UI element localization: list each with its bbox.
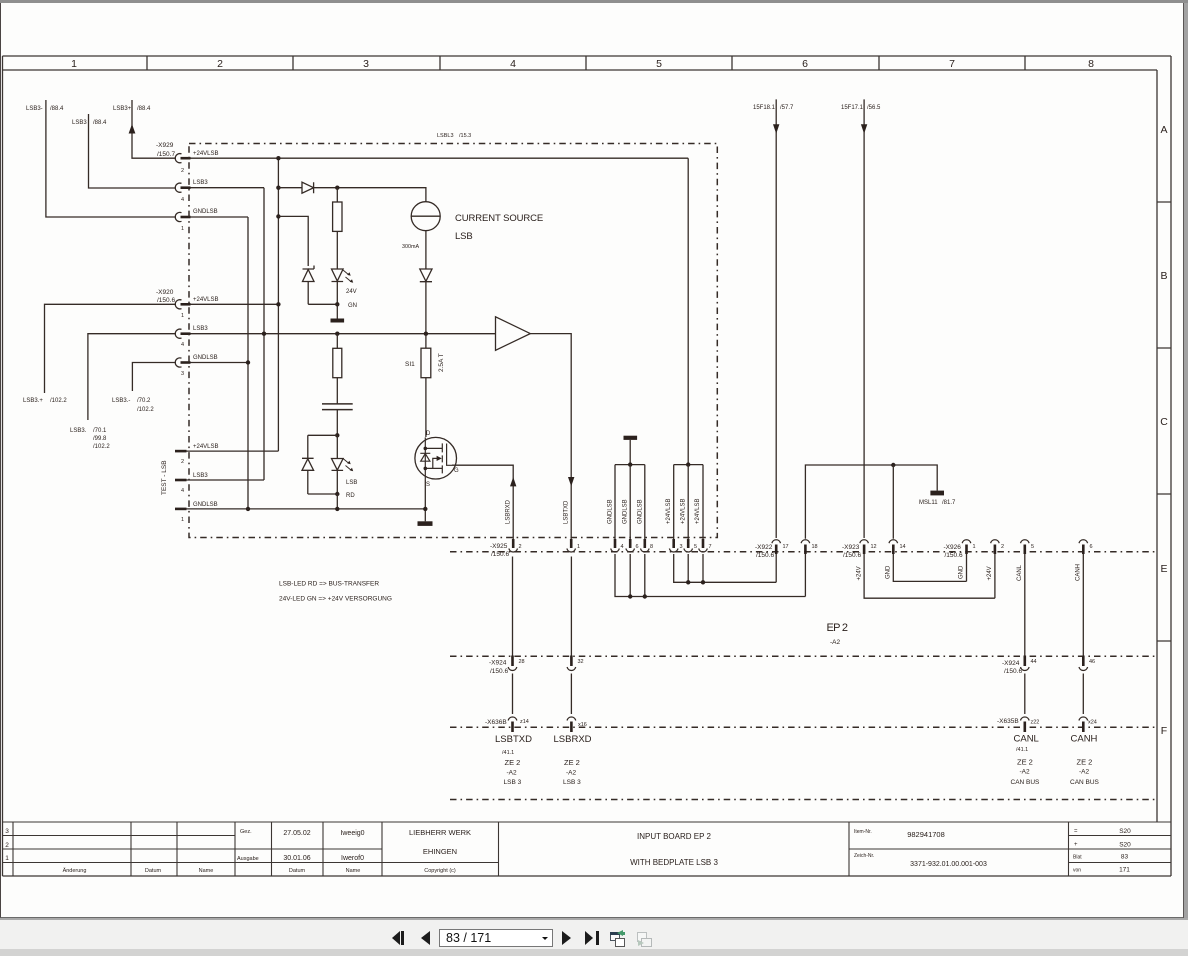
connector X925 24V pin 5 number (694, 544, 697, 550)
wire LED pair bottom link (308, 493, 338, 495)
svg-text:z22: z22 (1031, 720, 1040, 726)
diode V3 reverse of LED pair (302, 458, 314, 494)
svg-text:5: 5 (656, 58, 662, 70)
svg-text:18: 18 (812, 544, 818, 550)
svg-text:1: 1 (973, 544, 976, 550)
net label LSB3 at X920 (193, 326, 208, 332)
destination label CANH CAN BUS (1070, 779, 1100, 786)
svg-text:4: 4 (510, 58, 516, 70)
connector X925 pin LSBTXD number (519, 544, 522, 550)
column number 1 (71, 58, 77, 70)
svg-text:GNDLSB: GNDLSB (193, 355, 218, 361)
test pin 1 number (181, 517, 184, 523)
destination label LSBTXD sheet ref (502, 750, 514, 756)
connector X636B pin z14 number (520, 719, 529, 725)
arrow LSBTXD down (568, 477, 574, 486)
wire GNDLSB drop 3 (644, 465, 646, 539)
connector X922 pin 17 number (783, 544, 789, 550)
svg-text:LSB-LED RD => BUS-TRANSFER: LSB-LED RD => BUS-TRANSFER (279, 581, 379, 588)
note LED legend text (279, 581, 392, 603)
column number 7 (949, 58, 955, 70)
connector X920 pin 4 number (181, 342, 184, 348)
column number 5 (656, 58, 662, 70)
connector X920 pin 1 socket +24VLSB (175, 300, 190, 309)
svg-text:Blat: Blat (1073, 855, 1082, 861)
svg-text:/70.2: /70.2 (137, 398, 151, 404)
node LSB3 tail label (70, 428, 110, 450)
connector X925 24V pin 7 number (709, 544, 712, 550)
wire buffer output to LSBTXD column (530, 334, 571, 539)
connector X926 pin 6 number (1090, 544, 1093, 550)
net label +24V at X926 rotated (987, 566, 993, 580)
wire +24VLSB row X920 (191, 303, 279, 305)
svg-text:15F17.1: 15F17.1 (841, 105, 864, 111)
destination label CANH ZE 2 (1077, 758, 1093, 767)
svg-text:z14: z14 (520, 719, 529, 725)
junction +24V bus zener branch (276, 214, 280, 218)
connector X926 pin 1 number (973, 544, 976, 550)
destination label LSBRXD -A2 (566, 770, 577, 777)
svg-text:LSB3.-: LSB3.- (112, 398, 130, 404)
svg-text:CANH: CANH (1076, 564, 1082, 581)
svg-text:CURRENT SOURCE: CURRENT SOURCE (455, 213, 543, 224)
svg-text:D: D (426, 431, 431, 437)
connector X926 pin 2 number (1001, 544, 1004, 550)
svg-text:LSB3: LSB3 (193, 180, 208, 186)
net label LSBTXD rotated (564, 500, 570, 524)
connector X925 pin LSBRXD number (577, 544, 580, 550)
destination label LSBTXD -A2 (507, 770, 518, 777)
svg-text:GNDLSB: GNDLSB (608, 499, 614, 524)
wire LSB3 row X929 (191, 187, 265, 189)
junction +24V bus diode branch (276, 186, 280, 190)
svg-text:14: 14 (900, 544, 906, 550)
ground symbol below Q1 (418, 521, 433, 526)
svg-text:EP 2: EP 2 (827, 622, 848, 634)
svg-text:/150.7: /150.7 (157, 151, 175, 158)
svg-text:E: E (1160, 563, 1167, 575)
svg-text:-A2: -A2 (1020, 769, 1031, 776)
junction LSB3 bus at X920 row (262, 332, 266, 336)
junction LSB3 row at fuse (424, 332, 428, 336)
wire CANH X924 to X635B (1082, 674, 1084, 715)
destination label CANL (1014, 734, 1039, 745)
svg-text:-A2: -A2 (1079, 769, 1090, 776)
destination label CANL sheet ref (1016, 747, 1028, 753)
svg-text:MSL11: MSL11 (919, 500, 938, 506)
svg-text:-A2: -A2 (830, 639, 841, 646)
destination label LSBRXD (554, 734, 592, 745)
wire 24V drops to rail (674, 554, 777, 582)
svg-text:TEST - LSB: TEST - LSB (161, 460, 168, 495)
svg-text:+24VLSB: +24VLSB (193, 151, 219, 157)
svg-text:-A2: -A2 (566, 770, 577, 777)
nav first-page button (392, 931, 400, 945)
svg-text:171: 171 (1119, 867, 1130, 874)
connector X925 24V pin 3 socket (669, 539, 678, 552)
wire current source to diode V2 (425, 231, 427, 269)
svg-text:A: A (1160, 124, 1167, 136)
svg-text:/41.1: /41.1 (502, 750, 514, 756)
svg-text:+24VLSB: +24VLSB (193, 444, 219, 450)
connector X925 pin LSBRXD socket (567, 539, 576, 552)
junction Q1 source internal (424, 467, 428, 471)
svg-text:/41.1: /41.1 (1016, 747, 1028, 753)
svg-text:6: 6 (636, 544, 639, 550)
svg-text:982941708: 982941708 (907, 830, 945, 839)
test point TEST-LSB rotated label (161, 460, 168, 495)
svg-text:1: 1 (181, 517, 184, 523)
svg-text:/57.7: /57.7 (780, 105, 794, 111)
svg-text:SI1: SI1 (405, 361, 415, 368)
svg-text:15F18.1: 15F18.1 (753, 105, 776, 111)
node LSB3.- label (112, 398, 154, 413)
wire LSB3 bus vertical (263, 188, 265, 480)
net label CANL rotated (1017, 564, 1023, 581)
connector X924 pin 44 socket (1021, 656, 1030, 671)
node LSB3- top feeder label (26, 106, 64, 112)
svg-text:+24VLSB: +24VLSB (193, 297, 219, 303)
wire X923 pin14 GND drop (893, 465, 966, 581)
connector X635B pin z22 socket (1021, 717, 1030, 732)
connector X635B pin z22 number (1031, 720, 1040, 726)
svg-text:CAN BUS: CAN BUS (1011, 779, 1041, 786)
svg-text:3: 3 (181, 371, 184, 377)
destination label LSBTXD LSB 3 (504, 779, 522, 786)
net label GNDLSB at X929 (193, 209, 218, 215)
svg-text:Ausgabe: Ausgabe (237, 856, 259, 862)
svg-text:LSB: LSB (346, 480, 357, 486)
svg-text:ZE 2: ZE 2 (1017, 758, 1033, 767)
svg-text:6: 6 (1090, 544, 1093, 550)
svg-text:von: von (1073, 868, 1081, 874)
svg-text:S: S (426, 482, 430, 488)
wire X923 pin12 +24V drop (864, 554, 995, 598)
svg-text:32: 32 (578, 659, 584, 665)
connector X636B left designator (485, 719, 507, 726)
wire GND drops to rail (615, 554, 805, 597)
page combo (439, 929, 553, 947)
svg-text:1: 1 (577, 544, 580, 550)
destination label CANL -A2 (1020, 769, 1031, 776)
connector X635B pin x24 number (1088, 720, 1097, 726)
ground flag GNDLSB group (624, 436, 638, 465)
svg-text:3371-932.01.00.001-003: 3371-932.01.00.001-003 (910, 861, 987, 868)
nav last-page button (585, 931, 593, 945)
frame row letter band (1157, 70, 1171, 822)
boundary EP2 line row2 (450, 655, 1156, 657)
net label +24VLSB rotated 1 (666, 498, 672, 524)
svg-text:/88.4: /88.4 (137, 106, 151, 112)
current source caption (455, 213, 543, 242)
next-view icon (disabled) (637, 932, 648, 942)
test pin +24VLSB bar (175, 450, 187, 453)
svg-text:/150.6: /150.6 (945, 552, 963, 559)
svg-text:LSBRXD: LSBRXD (554, 734, 592, 745)
destination label CANL ZE 2 (1017, 758, 1033, 767)
connector X929 pin 1 socket GNDLSB (175, 212, 190, 221)
net label +24VLSB at test pin (193, 444, 219, 450)
net label GNDLSB rotated 2 (623, 499, 629, 524)
junction 24V rail 1 (686, 580, 690, 584)
wire C1 to LED pair (336, 410, 338, 436)
connector X922 pin 18 socket (801, 540, 810, 554)
ground flag MSL11 label (919, 500, 956, 506)
svg-text:GND: GND (886, 565, 892, 579)
resistor R1 (333, 188, 342, 232)
wire zener branch (278, 216, 308, 266)
net label GND at X926 rotated (959, 565, 965, 579)
svg-text:ZE 2: ZE 2 (1077, 758, 1093, 767)
net label +24VLSB rotated 3 (695, 498, 701, 524)
destination label CANH -A2 (1079, 769, 1090, 776)
svg-text:3: 3 (680, 544, 683, 550)
wire feeder 15F17.1 (861, 99, 867, 538)
svg-text:LSB 3: LSB 3 (563, 779, 581, 786)
title block company (409, 828, 471, 856)
svg-text:LSBTXD: LSBTXD (495, 734, 532, 745)
connector X925 designator (490, 543, 509, 558)
connector X636B pin x16 number (578, 722, 587, 728)
test pin LSB3 bar (175, 479, 187, 482)
svg-text:6: 6 (802, 58, 808, 70)
connector X920 pin 1 number (181, 313, 184, 319)
svg-text:27.05.02: 27.05.02 (283, 830, 310, 837)
junction diode output to resistor R1 (335, 186, 339, 190)
svg-text:GNDLSB: GNDLSB (193, 209, 218, 215)
connector X636B pin x16 socket (567, 717, 576, 732)
svg-text:-A2: -A2 (507, 770, 518, 777)
svg-text:INPUT BOARD EP 2: INPUT BOARD EP 2 (637, 832, 712, 841)
svg-text:2: 2 (5, 842, 9, 849)
svg-text:CANL: CANL (1017, 564, 1023, 581)
svg-text:Datum: Datum (289, 868, 306, 874)
capacitor C1 (322, 404, 353, 410)
net label GNDLSB at X920 (193, 355, 218, 361)
junction LED GN cathode (335, 302, 339, 306)
wire X920 pin1 to LSB3.+ tail (45, 304, 177, 393)
row letter C (1160, 416, 1168, 428)
net label LSB3 at X929 (193, 180, 208, 186)
svg-text:/150.6: /150.6 (843, 552, 861, 559)
connector X924 pin 28 socket (508, 656, 517, 671)
wire X920 pin3 to LSB3.- tail (132, 363, 176, 392)
zener diode Z1 (303, 266, 315, 305)
module label -A2 (830, 639, 841, 646)
LED LSB RD value label (346, 480, 357, 499)
connector X923 pin 12 socket (860, 540, 869, 554)
svg-text:WITH BEDPLATE LSB 3: WITH BEDPLATE LSB 3 (630, 858, 718, 867)
wire +24VLSB tie bar (674, 464, 703, 466)
svg-text:ZE 2: ZE 2 (505, 758, 521, 767)
svg-text:LSBRXD: LSBRXD (506, 499, 512, 524)
title block revision numbers (5, 828, 9, 862)
net label GND at X923 rotated (886, 565, 892, 579)
test pin GNDLSB bar (175, 508, 187, 511)
svg-text:/99.8: /99.8 (93, 436, 107, 442)
connector X924 left designator (489, 660, 508, 676)
svg-text:1: 1 (181, 313, 184, 319)
svg-text:Name: Name (346, 868, 361, 874)
svg-text:EHINGEN: EHINGEN (423, 847, 457, 856)
svg-text:LSB3: LSB3 (72, 120, 87, 126)
svg-text:GNDLSB: GNDLSB (638, 499, 644, 524)
wire GNDLSB row X920 (191, 362, 249, 364)
svg-text:-X924: -X924 (489, 660, 507, 667)
svg-text:LSB 3: LSB 3 (504, 779, 522, 786)
boundary EP2 line row3 (450, 726, 1156, 728)
column number 3 (363, 58, 369, 70)
wire CANH drop (1082, 554, 1084, 656)
prev-view icon (610, 932, 620, 941)
svg-text:2: 2 (519, 544, 522, 550)
svg-text:LIEBHERR WERK: LIEBHERR WERK (409, 828, 471, 837)
connector X925 24V pin 5 socket (684, 539, 693, 552)
svg-text:24V: 24V (346, 289, 357, 295)
wire +24VLSB drop 2 (687, 465, 689, 539)
svg-text:/150.6: /150.6 (756, 552, 774, 559)
svg-text:12: 12 (871, 544, 877, 550)
svg-text:LSB3.: LSB3. (70, 428, 87, 434)
row letter E (1160, 563, 1167, 575)
svg-text:G: G (454, 468, 459, 474)
title block bottom labels (63, 867, 456, 874)
wire LSB3- feeder (46, 100, 176, 217)
connector X925 GND pin 8 socket (641, 539, 650, 552)
svg-text:30.01.06: 30.01.06 (283, 855, 310, 862)
svg-text:83: 83 (1121, 854, 1129, 861)
wire feeder 15F18.1 (773, 99, 779, 538)
svg-text:4: 4 (181, 488, 184, 494)
svg-text:/70.1: /70.1 (93, 428, 107, 434)
wire LED pair top link (308, 435, 338, 458)
wire X922 pin18 to GND rail (804, 554, 806, 597)
svg-text:LSB3: LSB3 (193, 326, 208, 332)
svg-text:44: 44 (1031, 659, 1037, 665)
fuse SI1 value rotated (438, 353, 445, 372)
transistor Q1 gate label (454, 468, 459, 474)
svg-text:RD: RD (346, 493, 355, 499)
svg-text:/81.7: /81.7 (942, 500, 956, 506)
column number 2 (217, 58, 223, 70)
connector X922 designator (755, 544, 774, 559)
svg-text:-X925: -X925 (490, 543, 508, 550)
svg-text:Item-Nr.: Item-Nr. (854, 829, 872, 835)
svg-text:17: 17 (783, 544, 789, 550)
junction GND row at Q1 source (423, 507, 427, 511)
svg-text:-X920: -X920 (156, 289, 174, 296)
diode V1 series (302, 182, 314, 193)
wire +24VLSB feed vertical (687, 158, 689, 464)
junction GNDLSB bus at X920 row (246, 360, 250, 364)
svg-text:3: 3 (5, 828, 9, 835)
title block drawing title (630, 832, 718, 867)
wire LSB3 feeder (89, 114, 177, 188)
junction 24V rail 2 (701, 580, 705, 584)
wire GNDLSB drop 1 (614, 465, 616, 539)
svg-text:F: F (1161, 725, 1167, 737)
svg-text:1: 1 (5, 855, 9, 862)
connector X924 pin 28 number (519, 659, 525, 665)
node LSB3.+ label (23, 398, 67, 404)
junction LSB3 row at lower resistor (335, 332, 339, 336)
junction GND row at LED pair (335, 507, 339, 511)
wire +24VLSB drop 3 (702, 465, 704, 539)
connector X925 24V pin 3 number (680, 544, 683, 550)
connector X924 pin 46 number (1089, 659, 1095, 665)
svg-text:CANH: CANH (1071, 734, 1098, 745)
connector X924 right designator (1002, 660, 1022, 675)
wire CANL X924 to X635B (1024, 674, 1026, 715)
svg-text:Gez.: Gez. (240, 829, 252, 835)
wire R2 to capacitor C1 (336, 378, 338, 404)
svg-text:-X636B: -X636B (485, 719, 507, 726)
boundary EP2 line row4 (450, 799, 1156, 801)
svg-text:28: 28 (519, 659, 525, 665)
svg-text:+24VLSB: +24VLSB (681, 498, 687, 524)
row letter F (1161, 725, 1167, 737)
svg-text:ZE 2: ZE 2 (564, 758, 580, 767)
connector X923 designator (842, 544, 861, 559)
svg-text:x16: x16 (578, 722, 587, 728)
title block drawing number (854, 853, 987, 868)
connector X925 GND pin 4 socket (611, 539, 620, 552)
row letter B (1160, 270, 1167, 282)
connector X922 pin 17 socket (772, 540, 781, 554)
net label +24V at X923 rotated (857, 566, 863, 580)
svg-text:/102.2: /102.2 (137, 407, 154, 413)
connector X924 pin 32 number (578, 659, 584, 665)
svg-text:/15.3: /15.3 (459, 133, 471, 139)
connector X923 pin 14 number (900, 544, 906, 550)
connector X924 pin 32 socket (567, 656, 576, 671)
svg-text:+24V: +24V (987, 566, 993, 580)
svg-text:GNDLSB: GNDLSB (193, 502, 218, 508)
wire X922 pin17 to 24V rail (775, 554, 777, 582)
svg-text:C: C (1160, 416, 1168, 428)
svg-text:/56.5: /56.5 (867, 105, 881, 111)
resistor R2 (333, 334, 342, 378)
connector X920 pin 4 socket LSB3 (175, 329, 190, 338)
connector X926 designator (944, 544, 963, 559)
net label GNDLSB rotated 3 (638, 499, 644, 524)
LED LSB RD (332, 459, 354, 495)
svg-text:+24V: +24V (857, 566, 863, 580)
wire X920 pin4 to LSB3 tail (88, 334, 176, 420)
svg-text:5: 5 (694, 544, 697, 550)
net label CANH rotated (1076, 564, 1082, 581)
svg-text:LSBL3: LSBL3 (437, 133, 454, 139)
wire zener to LED GN cathode node (308, 303, 337, 305)
boundary LSBL3 label (437, 133, 471, 139)
svg-text:8: 8 (650, 544, 653, 550)
svg-text:/88.4: /88.4 (50, 106, 64, 112)
module label EP 2 (827, 622, 848, 634)
wire X926 pin2 +24V drop (994, 554, 996, 598)
wire GNDLSB tie bar (615, 464, 645, 466)
svg-text:-X635B: -X635B (997, 718, 1019, 725)
connector X920 pin 3 socket GNDLSB (175, 358, 190, 367)
nav prev button (421, 931, 430, 945)
svg-text:CAN BUS: CAN BUS (1070, 779, 1100, 786)
svg-text:-X924: -X924 (1002, 660, 1020, 667)
svg-text:/150.6: /150.6 (1004, 668, 1022, 675)
node LSB3 top feeder label (72, 120, 107, 126)
current source value 300mA (402, 244, 419, 250)
wire LSBTXD X924 to X635B (512, 557, 514, 715)
junction +24V bus at X920 row (276, 302, 280, 306)
net label +24VLSB rotated 2 (681, 498, 687, 524)
